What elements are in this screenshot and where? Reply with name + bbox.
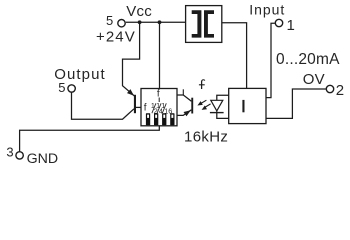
svg-text:16kHz: 16kHz <box>184 129 228 146</box>
svg-text:5: 5 <box>58 80 65 95</box>
svg-text:1: 1 <box>287 17 295 34</box>
svg-text:5: 5 <box>106 13 113 28</box>
svg-text:GND: GND <box>27 151 59 167</box>
svg-text:Input: Input <box>249 1 285 17</box>
svg-text:f: f <box>144 103 147 114</box>
svg-text:2: 2 <box>336 82 344 99</box>
svg-text:3: 3 <box>6 144 13 159</box>
svg-text:OV: OV <box>303 71 325 88</box>
svg-text:+24V: +24V <box>96 29 136 46</box>
svg-text:Vcc: Vcc <box>126 3 152 20</box>
svg-text:0...20mA: 0...20mA <box>276 51 340 68</box>
